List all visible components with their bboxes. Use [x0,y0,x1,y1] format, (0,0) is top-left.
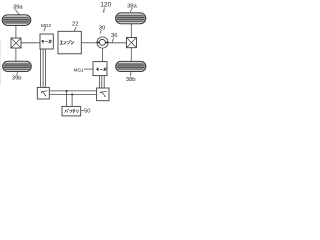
svg-text:120: 120 [100,1,111,8]
svg-text:MG2: MG2 [41,23,52,28]
svg-text:50: 50 [84,109,90,115]
svg-text:38b: 38b [126,77,136,83]
svg-text:30: 30 [99,26,105,32]
svg-text:22: 22 [72,22,78,28]
svg-text:39a: 39a [13,5,23,11]
svg-text:36: 36 [111,33,117,39]
svg-text:38a: 38a [127,4,137,10]
svg-text:MG1: MG1 [74,68,85,73]
svg-text:39b: 39b [12,76,22,82]
